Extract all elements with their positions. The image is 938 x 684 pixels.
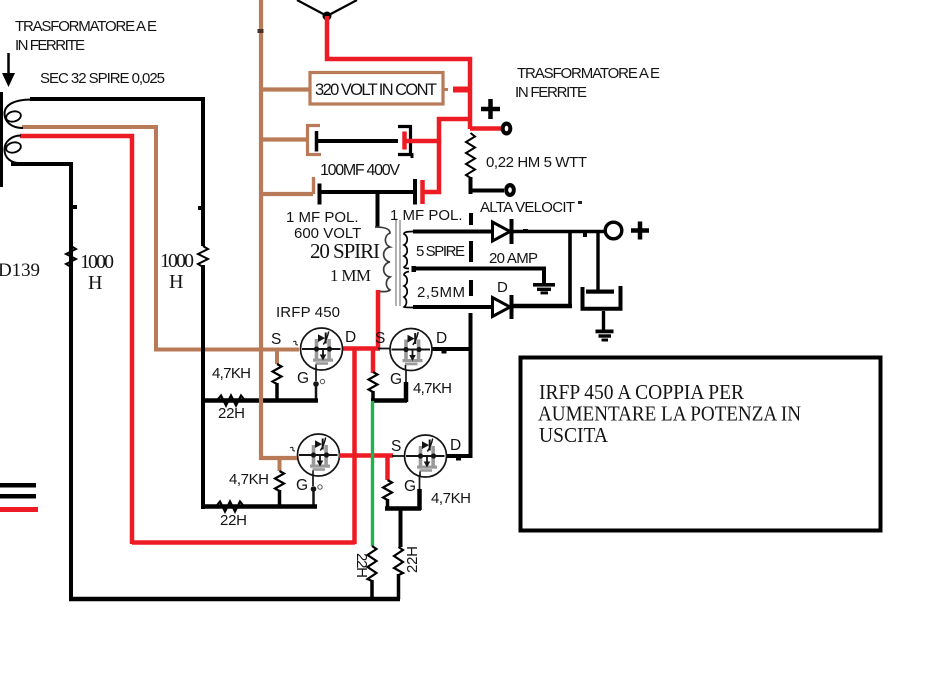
- svg-text:2,5MM: 2,5MM: [417, 284, 465, 301]
- label trasformatore right: [515, 65, 660, 101]
- svg-text:G: G: [297, 370, 309, 387]
- wire M4 row down: [399, 508, 403, 547]
- plus sign top: [481, 99, 500, 119]
- wire brown to 320V box: [261, 87, 310, 91]
- label D: [497, 279, 508, 296]
- svg-text:ALTA VELOCIT: ALTA VELOCIT: [480, 199, 575, 216]
- svg-text:D: D: [345, 329, 356, 346]
- brown bus vertical: [261, 0, 297, 458]
- wire red from transformer: [20, 136, 132, 544]
- resistor 1000H right: [160, 246, 208, 293]
- svg-text:TRASFORMATORE A E: TRASFORMATORE A E: [15, 18, 157, 35]
- resistor 22H row1: [217, 396, 245, 423]
- svg-text:1 MF POL.: 1 MF POL.: [286, 209, 359, 226]
- svg-text:IRFP 450: IRFP 450: [276, 304, 340, 321]
- wire cap row to transformer primary: [376, 192, 380, 227]
- resistor R4,7K M3: [229, 458, 284, 507]
- capacitor C3 1MF: [390, 140, 463, 224]
- resistor 22H row2: [216, 502, 247, 530]
- diode D2: [493, 295, 512, 319]
- label sec spire: [40, 70, 165, 87]
- wire red down branch: [352, 348, 357, 544]
- arrow pointer: [2, 53, 15, 87]
- terminal ring 2: [504, 183, 516, 197]
- svg-text:SEC 32 SPIRE 0,025: SEC 32 SPIRE 0,025: [40, 70, 165, 87]
- resistor 22H right column: [394, 546, 421, 599]
- wire secondary top to diode: [413, 230, 493, 234]
- svg-text:D: D: [436, 330, 447, 347]
- capacitor C2 1MF 600V: [261, 177, 415, 242]
- svg-text:1000: 1000: [80, 251, 114, 273]
- svg-text:22H: 22H: [218, 405, 245, 422]
- wire left transformer top black: [30, 99, 203, 246]
- transformer T1 winding 1: [5, 100, 33, 129]
- svg-text:H: H: [88, 272, 102, 294]
- svg-text:22H: 22H: [353, 553, 370, 578]
- transformer T1 winding 2: [5, 136, 24, 164]
- wire brown to M1 source: [154, 348, 299, 352]
- resistor R4,7K M4: [383, 480, 471, 510]
- svg-text:H: H: [169, 271, 183, 293]
- wire brown stub right of box: [443, 88, 448, 91]
- wire diode D2 to node: [513, 304, 572, 309]
- wire 22H row2: [204, 504, 317, 509]
- svg-text:IN FERRITE: IN FERRITE: [15, 37, 85, 54]
- svg-text:1 MM: 1 MM: [330, 266, 371, 285]
- transformer T2 primary winding: [375, 227, 390, 292]
- svg-text:IRFP 450 A COPPIA PER: IRFP 450 A COPPIA PER: [539, 380, 745, 404]
- output circle terminal: [605, 222, 622, 239]
- svg-text:AUMENTARE LA POTENZA IN: AUMENTARE LA POTENZA IN: [538, 402, 801, 426]
- resistor R 0,22 HM: [466, 133, 587, 178]
- transformer T2 core: [396, 220, 400, 306]
- wire bottom rail: [69, 597, 400, 602]
- wire red to plus terminal: [470, 126, 503, 131]
- label 5 spire: [416, 243, 465, 260]
- tick on brown bus: [258, 29, 264, 33]
- svg-text:S: S: [391, 438, 401, 455]
- capacitor C4 output electrolytic: [583, 233, 621, 330]
- resistor R4,7K M2: [369, 372, 453, 402]
- svg-text:5 SPIRE: 5 SPIRE: [416, 243, 465, 260]
- svg-text:0,22 HM 5 WTT: 0,22 HM 5 WTT: [486, 154, 587, 171]
- wire left transformer bottom black: [11, 164, 71, 601]
- junction tick 2: [583, 232, 587, 237]
- label 2,5mm: [417, 284, 465, 301]
- svg-text:4,7KH: 4,7KH: [229, 471, 269, 488]
- drain bus vertical: [469, 313, 473, 458]
- svg-text:G: G: [390, 371, 402, 388]
- svg-text:G: G: [404, 478, 416, 495]
- wire M4 source link: [392, 455, 405, 457]
- svg-text:D: D: [450, 437, 461, 454]
- wire left transformer brown: [22, 127, 156, 348]
- label D139: [0, 260, 40, 281]
- wire red top feed: [327, 16, 470, 129]
- wire 22H row1: [204, 398, 318, 403]
- wire green: [371, 401, 374, 546]
- terminal ring top: [501, 122, 513, 136]
- wire diode D1 to output: [513, 230, 605, 234]
- svg-text:4,7KH: 4,7KH: [413, 380, 452, 397]
- wire M2 drain to bus: [431, 349, 472, 354]
- wire red transformer primary down: [376, 290, 381, 349]
- mosfet M1: [271, 328, 356, 400]
- wire M4 drain to bus: [446, 456, 472, 461]
- wire secondary bottom to diode: [413, 305, 493, 309]
- junction tick left column: [71, 205, 77, 209]
- node top V: [297, 0, 357, 21]
- wire red bottom rail: [132, 540, 355, 545]
- svg-text:S: S: [271, 331, 281, 348]
- svg-text:D: D: [497, 279, 508, 296]
- wire red M3 drain row: [339, 453, 393, 458]
- svg-text:1000: 1000: [160, 250, 194, 272]
- transformer T2 secondary 2,5mm: [404, 272, 414, 308]
- capacitor C1 100MF 400V: [261, 119, 471, 179]
- svg-text:IN FERRITE: IN FERRITE: [515, 84, 587, 101]
- svg-text:22H: 22H: [220, 512, 247, 529]
- diode D1 20 AMP: [489, 219, 538, 267]
- wire M2 gate row: [371, 398, 407, 403]
- svg-text:22H: 22H: [404, 546, 421, 573]
- wire M4 gate row: [385, 506, 421, 511]
- ground center tap: [533, 283, 555, 294]
- mosfet M2: [375, 329, 447, 403]
- wire red M2 gate resistor stub: [371, 349, 376, 373]
- box 320 VOLT: [310, 73, 443, 105]
- wire right column: [201, 265, 205, 509]
- transformer T2 secondary 5 spire: [404, 232, 416, 273]
- mosfet M4: [391, 435, 461, 510]
- wire red M1 drain row: [334, 346, 380, 351]
- svg-text:G: G: [296, 477, 308, 494]
- resistor 22H green column: [353, 546, 377, 599]
- svg-text:100MF 400V: 100MF 400V: [320, 162, 400, 179]
- label transformer title: [15, 18, 157, 54]
- wire M2 source link: [378, 348, 392, 350]
- junction tick: [523, 229, 528, 233]
- plus sign output: [631, 222, 649, 240]
- dashed line segments: [469, 213, 473, 296]
- svg-text:20 AMP: 20 AMP: [489, 250, 538, 267]
- mosfet M3: [290, 434, 340, 507]
- svg-text:D139: D139: [0, 260, 40, 281]
- battery bars left edge: [0, 483, 38, 512]
- wire center tap: [413, 269, 544, 285]
- wire red stub from box: [453, 87, 471, 93]
- svg-text:USCITA: USCITA: [539, 423, 608, 447]
- svg-text:4,7KH: 4,7KH: [431, 490, 471, 507]
- resistor R4,7K M1: [212, 349, 282, 401]
- resistor 1000H left: [66, 246, 114, 294]
- annotation box: [521, 358, 881, 531]
- label alta velocita: [480, 199, 582, 216]
- svg-text:20 SPIRI: 20 SPIRI: [310, 239, 380, 263]
- svg-text:320 VOLT IN CONT: 320 VOLT IN CONT: [315, 81, 437, 99]
- svg-text:TRASFORMATORE A E: TRASFORMATORE A E: [517, 65, 660, 82]
- label IRFP 450: [276, 304, 340, 321]
- wire below resistor: [469, 177, 473, 194]
- svg-text:S: S: [375, 330, 385, 347]
- wire red M4 resistor stub: [385, 456, 390, 480]
- svg-text:4,7KH: 4,7KH: [212, 365, 251, 382]
- wire output node down: [568, 231, 572, 307]
- label 1 mm: [330, 266, 371, 285]
- transformer T1 core line: [0, 92, 3, 187]
- ground output: [596, 330, 614, 342]
- wire to terminal 2: [469, 189, 504, 193]
- junction tick right column: [198, 206, 204, 210]
- label 20 spiri: [310, 239, 380, 263]
